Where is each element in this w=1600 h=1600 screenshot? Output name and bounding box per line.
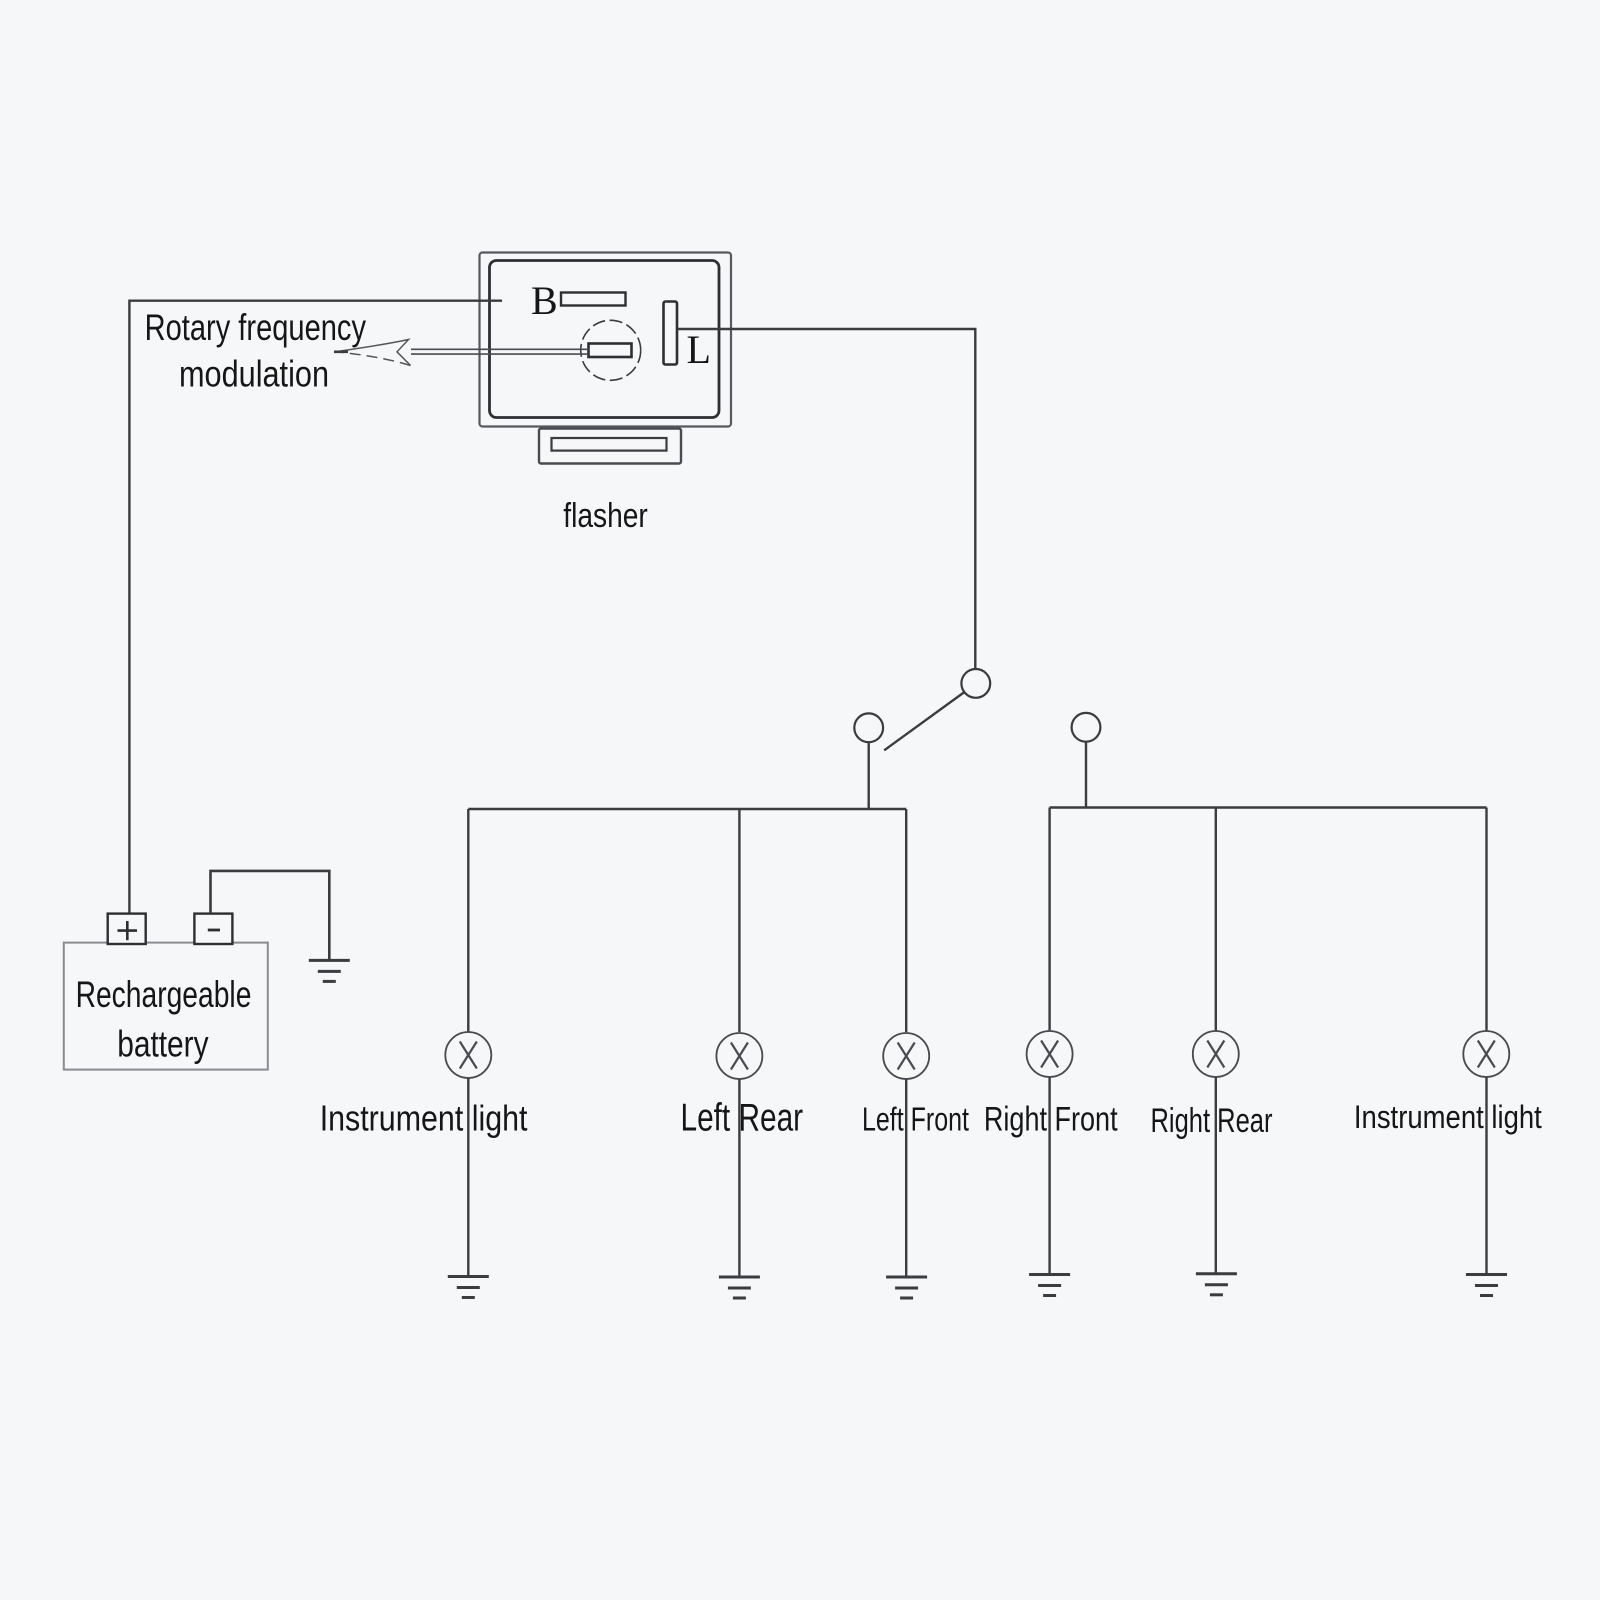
battery - symbol bbox=[208, 929, 220, 932]
drop wire instrument light left bbox=[467, 809, 469, 1032]
wire B to battery + (horizontal) bbox=[129, 301, 502, 915]
adjuster slot bbox=[589, 344, 632, 358]
drop wire instrument light right bbox=[1485, 808, 1487, 1032]
terminal pad B bbox=[561, 293, 626, 306]
wire lamp tail right front bbox=[1048, 1077, 1050, 1275]
svg-text:B: B bbox=[531, 278, 558, 323]
flasher unit U1 outer case bbox=[480, 253, 732, 427]
left bus wire bbox=[468, 808, 906, 810]
svg-text:flasher: flasher bbox=[563, 497, 648, 535]
wire lamp tail instrument right bbox=[1485, 1077, 1487, 1275]
switch right contact bbox=[1072, 713, 1101, 742]
lamp left front bbox=[883, 1033, 929, 1079]
drop wire right rear bbox=[1215, 808, 1217, 1032]
svg-text:Left Front: Left Front bbox=[862, 1100, 969, 1137]
ground right front bbox=[1029, 1275, 1070, 1296]
arrow shaft double line bbox=[411, 349, 589, 354]
drop wire left front bbox=[905, 809, 907, 1032]
wire - terminal to chassis ground bbox=[211, 871, 330, 960]
lamp left rear bbox=[716, 1033, 762, 1079]
battery BT1 body bbox=[64, 943, 268, 1070]
svg-text:Left Rear: Left Rear bbox=[681, 1096, 804, 1139]
ground instrument right bbox=[1466, 1275, 1507, 1296]
arrowhead open stealth bbox=[336, 340, 411, 366]
svg-text:battery: battery bbox=[117, 1023, 209, 1065]
wire lamp tail right rear bbox=[1215, 1077, 1217, 1274]
battery + terminal box bbox=[108, 914, 146, 944]
wire L to switch bbox=[678, 329, 976, 669]
svg-text:modulation: modulation bbox=[179, 353, 329, 394]
flasher mounting tab outer bbox=[539, 429, 681, 464]
ground instrument left bbox=[448, 1277, 489, 1298]
svg-text:Rechargeable: Rechargeable bbox=[76, 973, 252, 1015]
wire lamp tail left front bbox=[905, 1079, 907, 1277]
arrow tip dash bbox=[334, 350, 348, 353]
wire left contact to left bus bbox=[868, 742, 870, 809]
right bus wire bbox=[1050, 806, 1487, 808]
drop wire right front bbox=[1048, 808, 1050, 1032]
flasher mounting tab slot bbox=[552, 438, 667, 451]
switch left contact bbox=[854, 713, 883, 742]
rotary adjuster dashed circle bbox=[581, 320, 641, 380]
svg-text:L: L bbox=[687, 327, 711, 372]
switch blade bbox=[884, 692, 964, 750]
terminal pad L bbox=[664, 302, 678, 365]
svg-text:Instrument light: Instrument light bbox=[1354, 1099, 1542, 1135]
wire lamp tail left rear bbox=[738, 1079, 740, 1277]
svg-text:Instrument light: Instrument light bbox=[320, 1097, 528, 1138]
ground left rear bbox=[719, 1277, 760, 1298]
flasher inner case bbox=[490, 261, 720, 418]
wire right contact to right bus bbox=[1085, 742, 1087, 808]
wire lamp tail instrument left bbox=[467, 1078, 469, 1277]
svg-text:Right Rear: Right Rear bbox=[1151, 1102, 1273, 1140]
svg-text:Right Front: Right Front bbox=[984, 1100, 1118, 1138]
lamp right rear bbox=[1193, 1031, 1239, 1077]
lamp right front bbox=[1027, 1031, 1073, 1077]
svg-text:Rotary frequency: Rotary frequency bbox=[145, 307, 367, 348]
battery - terminal box bbox=[194, 914, 232, 944]
lamp instrument left bbox=[445, 1032, 491, 1078]
drop wire left rear bbox=[738, 809, 740, 1032]
ground left front bbox=[886, 1277, 927, 1298]
lamp instrument right bbox=[1463, 1031, 1509, 1077]
ground right rear bbox=[1196, 1274, 1237, 1295]
ground battery bbox=[309, 960, 350, 981]
battery + symbol bbox=[118, 921, 138, 940]
switch common contact bbox=[961, 669, 990, 698]
